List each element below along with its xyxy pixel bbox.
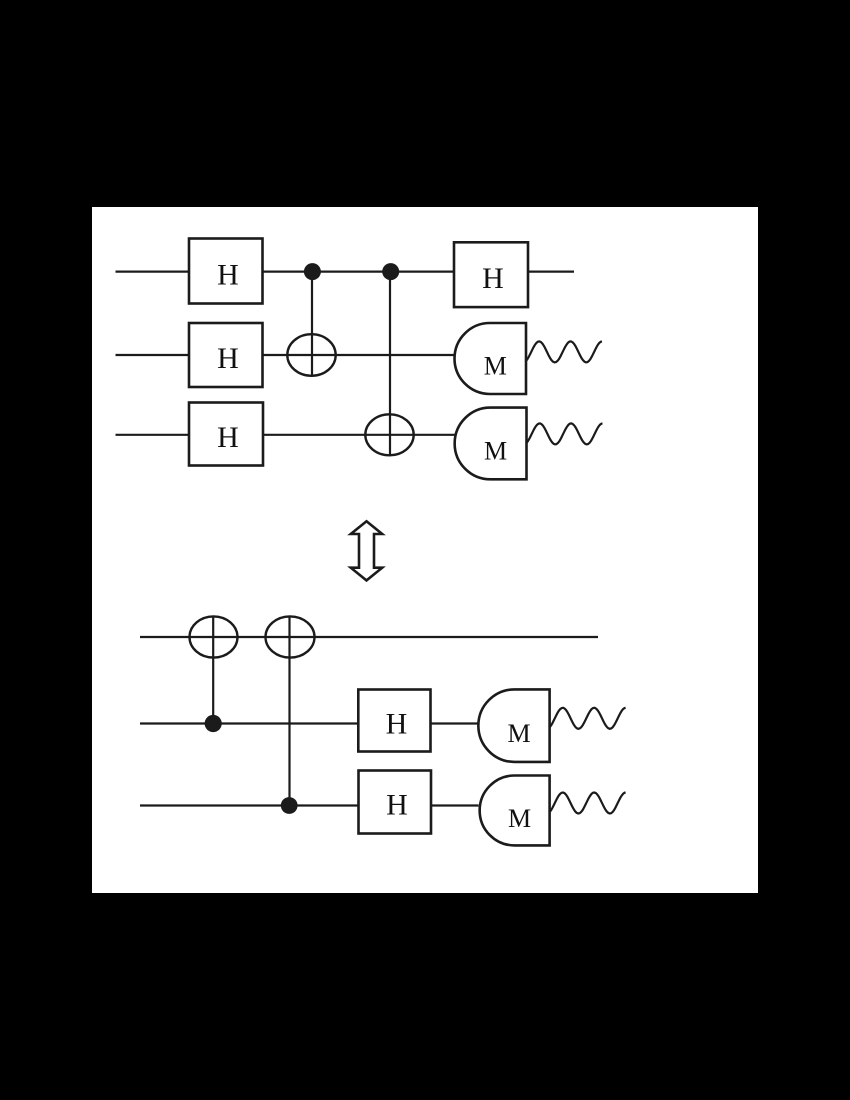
wire qubit2 (top circuit) [116,354,456,356]
wire qubit2 (bottom circuit) [140,722,479,724]
wire qubit1 (bottom circuit) [140,636,598,638]
svg-text:M: M [508,719,531,748]
CNOT4 target xor (bottom circuit qubit1) [266,616,315,657]
classical squiggle wire 4 (bottom circuit qubit3) [550,793,626,814]
wire CNOT4 vertical control line (bottom circuit) [288,616,290,805]
svg-text:H: H [217,258,239,291]
svg-text:M: M [484,437,507,466]
measurement M1 (top circuit qubit2) [454,323,526,394]
svg-text:H: H [386,789,408,822]
classical squiggle wire 3 (bottom circuit qubit2) [550,708,626,729]
wire CNOT2 vertical control line (top circuit) [389,272,391,456]
wire qubit3 (bottom circuit) [140,804,479,806]
wire CNOT1 vertical control line (top circuit) [311,272,313,376]
svg-text:H: H [482,262,504,295]
CNOT3 target xor (bottom circuit qubit1) [190,616,238,657]
equivalence double arrow [351,521,382,580]
svg-text:M: M [484,352,507,381]
svg-text:H: H [217,421,239,454]
svg-text:H: H [217,342,239,375]
CNOT1 target xor (top circuit qubit2) [287,334,335,376]
gate H1 (top circuit qubit1 left) [189,239,263,304]
figure white panel [92,207,758,893]
wire CNOT3 vertical control line (bottom circuit) [212,616,214,723]
classical squiggle wire 1 (top circuit qubit2) [526,341,602,362]
svg-text:H: H [386,708,408,741]
gate H4 (top circuit qubit1 right) [454,242,528,307]
control dot CNOT3 (bottom circuit qubit2) [205,715,222,732]
measurement M4 (bottom circuit qubit3) [480,776,550,846]
measurement M2 (top circuit qubit3) [455,408,527,480]
control dot CNOT1 (top circuit qubit1) [304,263,321,280]
gate H2 (top circuit qubit2) [189,323,263,387]
svg-text:M: M [508,804,531,833]
control dot CNOT4 (bottom circuit qubit3) [281,797,298,814]
classical squiggle wire 2 (top circuit qubit3) [527,423,603,444]
measurement M3 (bottom circuit qubit2) [478,689,549,762]
gate H3 (top circuit qubit3) [189,403,263,466]
CNOT2 target xor (top circuit qubit3) [365,414,413,455]
wire qubit1 (top circuit) [116,271,575,273]
gate H6 (bottom circuit qubit3) [359,771,432,834]
control dot CNOT2 (top circuit qubit1) [382,263,399,280]
gate H5 (bottom circuit qubit2) [358,690,430,752]
wire qubit3 (top circuit) [116,434,456,436]
